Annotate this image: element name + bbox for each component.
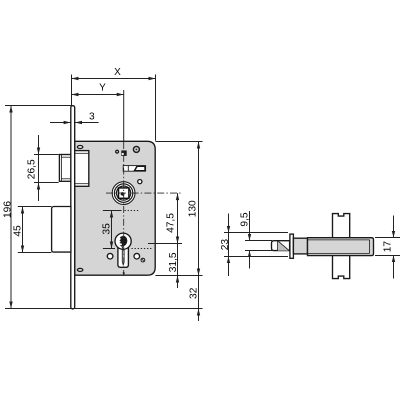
dimension 26,5 xyxy=(26,135,58,201)
top slot in case xyxy=(77,146,82,149)
dimension X xyxy=(72,67,156,141)
svg-text:35: 35 xyxy=(102,223,113,235)
side view: collar xyxy=(293,238,307,254)
cylinder circle xyxy=(115,233,131,249)
svg-text:9,5: 9,5 xyxy=(240,212,251,226)
svg-text:Y: Y xyxy=(99,83,106,94)
side view: cross plate lower xyxy=(333,256,350,279)
svg-text:3: 3 xyxy=(89,111,95,122)
horizontal centerline through hub xyxy=(106,192,182,194)
dimension 31,5 xyxy=(168,244,179,289)
svg-text:196: 196 xyxy=(3,201,14,218)
small pin circle xyxy=(116,150,119,153)
svg-text:X: X xyxy=(114,67,121,78)
dimension 3 faceplate thickness xyxy=(50,111,99,124)
lock case body xyxy=(75,141,156,275)
dimension 23 xyxy=(220,214,288,277)
latch bolt inner body xyxy=(75,151,89,187)
svg-text:32: 32 xyxy=(188,287,199,299)
side view: latch head xyxy=(272,241,290,251)
top screw xyxy=(133,146,139,152)
dimension 130 xyxy=(155,142,202,276)
centerline end arrow xyxy=(123,272,125,276)
dimension 32 xyxy=(188,276,200,322)
dimension Y xyxy=(72,83,124,142)
deadbolt xyxy=(52,207,71,253)
key profile xyxy=(119,236,127,249)
fixing hole right xyxy=(134,253,140,259)
vertical centerline xyxy=(123,142,125,273)
svg-text:47,5: 47,5 xyxy=(165,213,176,233)
small hole right of hub xyxy=(138,180,142,184)
latch bolt head xyxy=(59,155,70,182)
spindle hub xyxy=(112,182,135,205)
cylinder stem xyxy=(118,246,128,268)
side view: latch bar xyxy=(308,238,374,256)
side view: faceplate section xyxy=(290,234,294,258)
dimension 35 xyxy=(102,211,153,249)
detent square xyxy=(121,150,126,156)
small screw bottom xyxy=(141,258,145,262)
dimension 9,5 xyxy=(240,211,273,269)
svg-text:23: 23 xyxy=(220,239,231,251)
svg-text:45: 45 xyxy=(13,225,24,237)
dimension 45 xyxy=(13,207,52,253)
side view: cross plate upper xyxy=(333,214,350,238)
svg-text:17: 17 xyxy=(383,241,394,253)
dimension 47,5 xyxy=(148,193,182,243)
bottom slot in case xyxy=(77,268,82,271)
svg-text:130: 130 xyxy=(188,200,199,217)
dimension 196 xyxy=(3,106,203,309)
fixing hole left xyxy=(107,253,113,259)
faceplate front strip xyxy=(71,106,75,309)
dimension 17 xyxy=(375,216,400,279)
svg-text:31,5: 31,5 xyxy=(168,252,179,272)
latch reversing slider xyxy=(123,166,145,172)
svg-text:26,5: 26,5 xyxy=(26,159,37,179)
